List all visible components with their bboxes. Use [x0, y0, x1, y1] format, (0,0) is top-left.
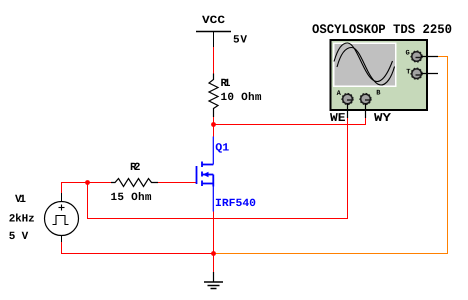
svg-text:T: T [406, 69, 410, 77]
svg-text:IRF540: IRF540 [215, 198, 256, 210]
svg-text:5V: 5V [233, 35, 247, 47]
svg-text:OSCYLOSKOP TDS 2250: OSCYLOSKOP TDS 2250 [312, 22, 452, 37]
svg-text:V1: V1 [15, 194, 26, 206]
svg-text:5 V: 5 V [9, 231, 29, 243]
svg-text:G: G [406, 50, 410, 58]
svg-text:R1: R1 [221, 78, 231, 90]
svg-text:VCC: VCC [202, 15, 225, 27]
svg-text:R2: R2 [130, 162, 141, 174]
svg-text:WY: WY [374, 111, 392, 125]
svg-text:Q1: Q1 [215, 143, 229, 155]
svg-text:10 Ohm: 10 Ohm [221, 92, 262, 104]
svg-text:15 Ohm: 15 Ohm [111, 192, 152, 204]
svg-text:WE: WE [330, 111, 346, 125]
svg-text:2kHz: 2kHz [9, 214, 35, 226]
